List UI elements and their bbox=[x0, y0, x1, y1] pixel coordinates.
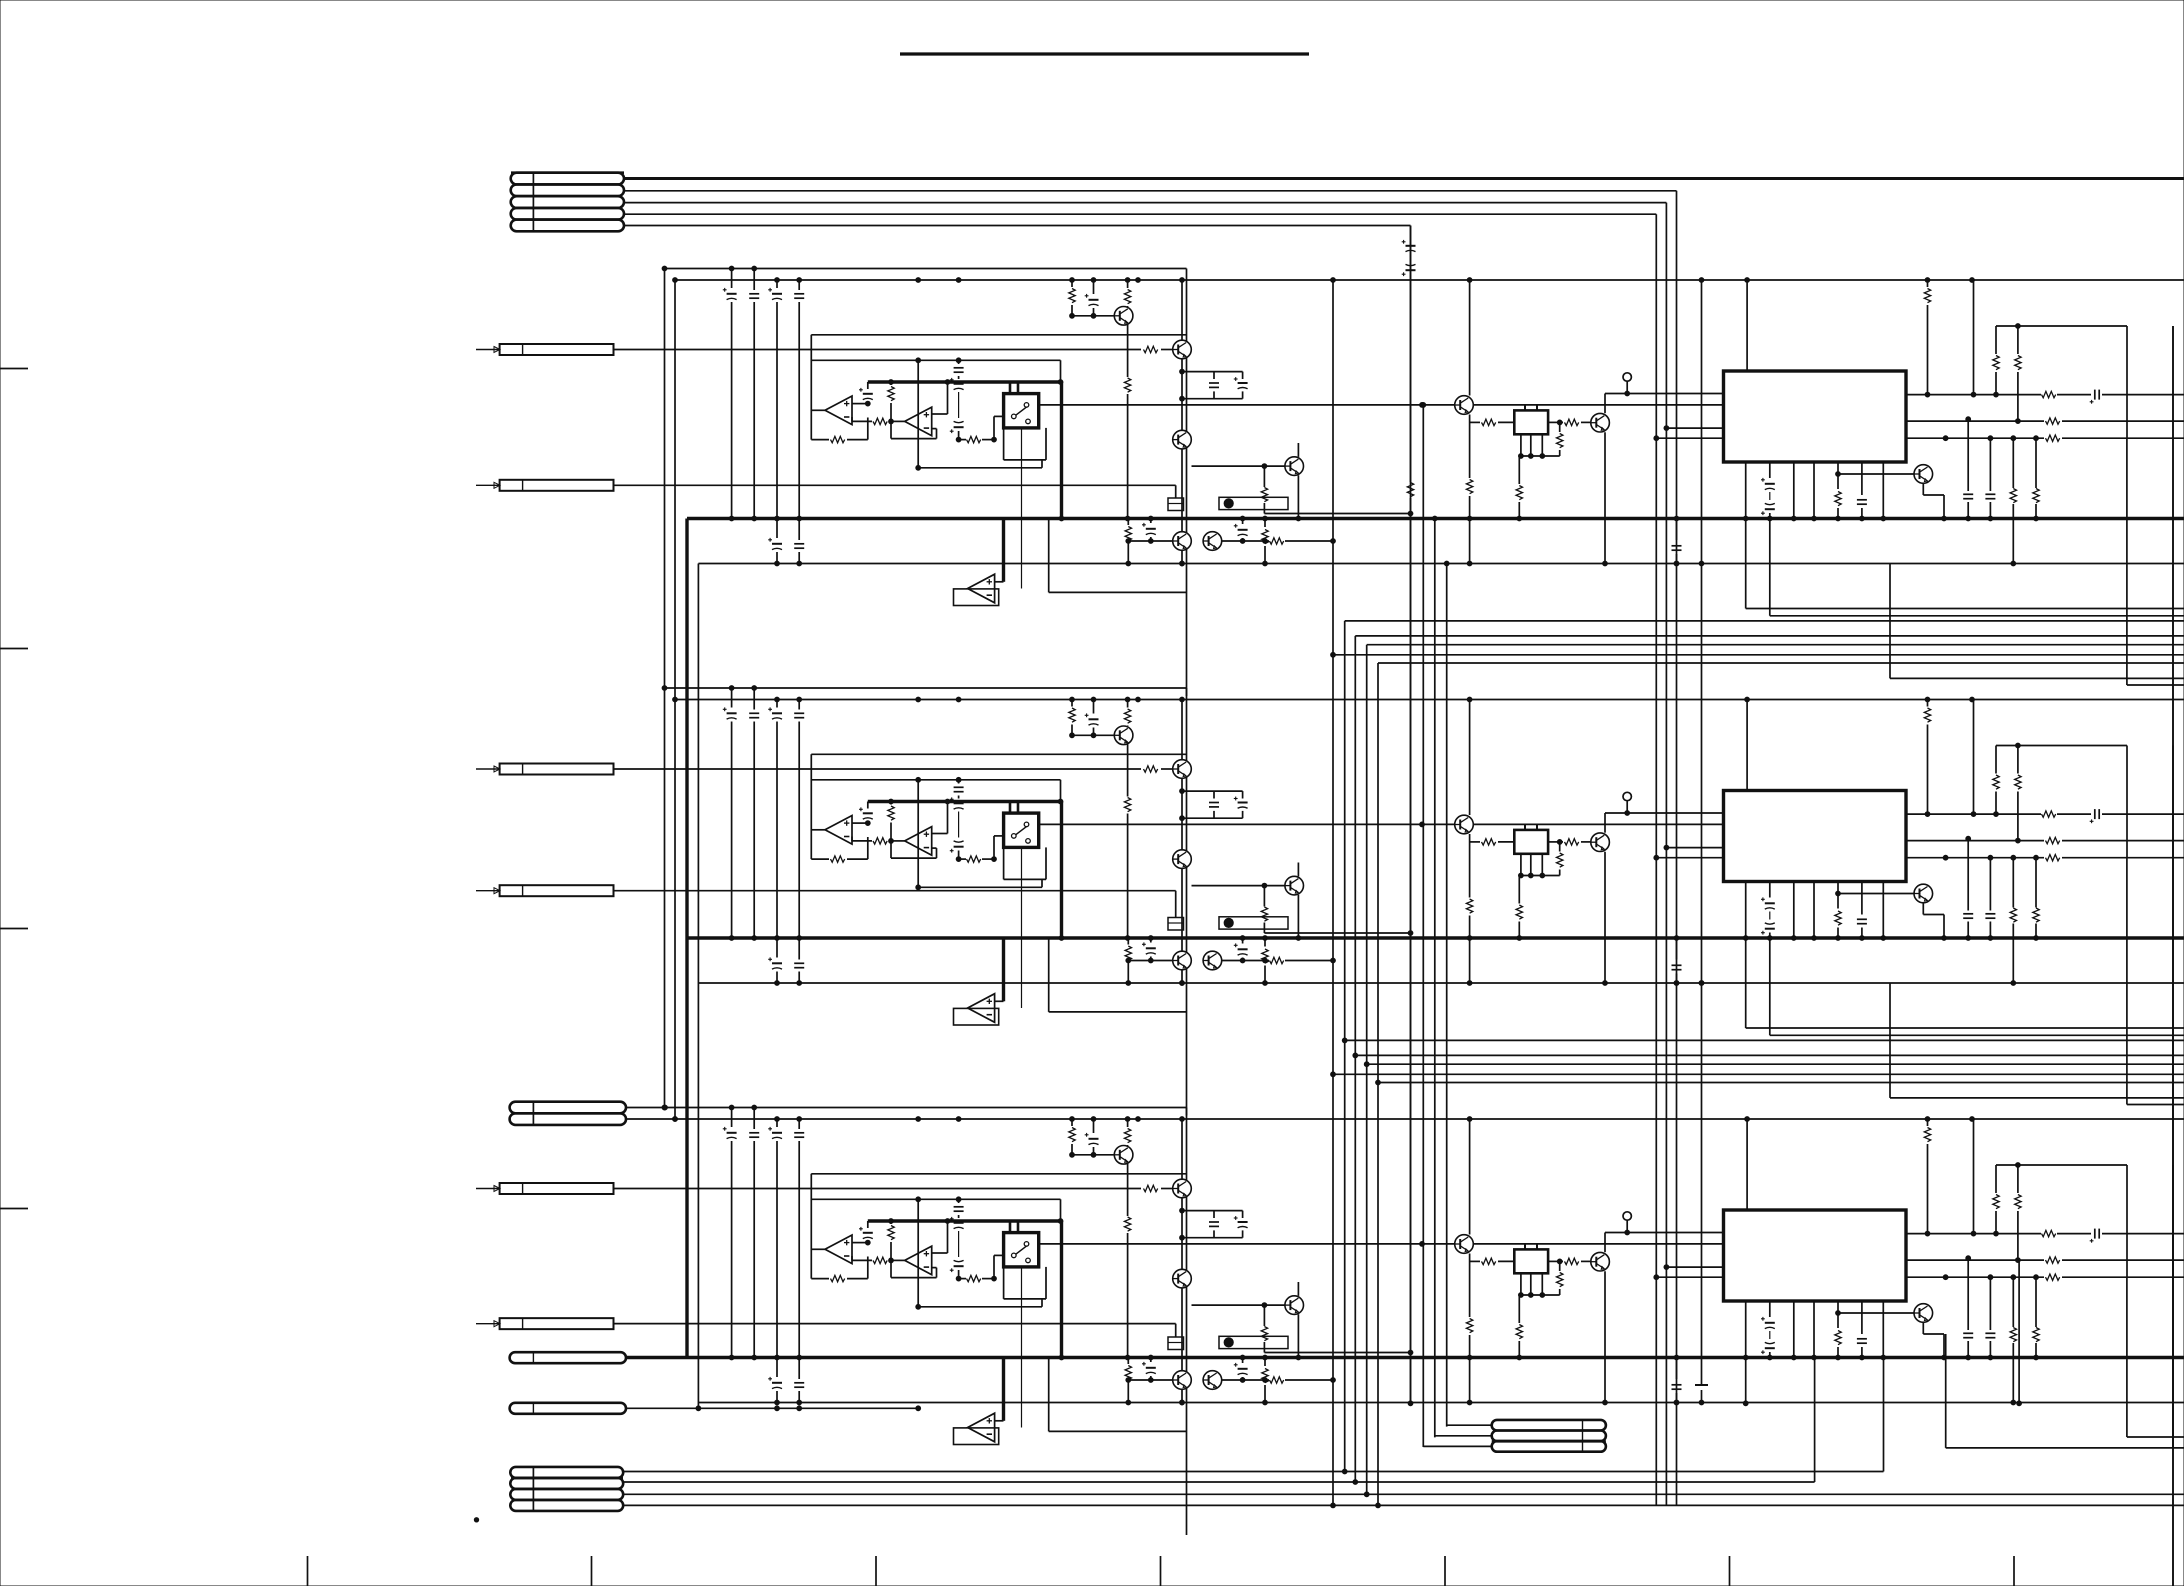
wire: harness wire 1 (thick) bbox=[624, 177, 2184, 180]
wire: control vertical 4 bbox=[1446, 564, 1448, 1427]
wire: secondary riser bbox=[697, 564, 699, 1409]
wire: bus bundle vertical 1 bbox=[1332, 280, 1334, 1505]
connector: top-left harness (5 pills) bbox=[511, 173, 624, 185]
wire: ch3 right exits bbox=[1945, 1334, 1947, 1448]
channel 3 (blue) video block bbox=[476, 1105, 2184, 1586]
capacitor pair on harness wire 5 bbox=[1402, 240, 1416, 252]
wire: input 2 line ch2 bbox=[614, 890, 1176, 892]
wire: CN7 row 3 bbox=[1423, 1445, 1491, 1447]
wire: control vertical 1 bbox=[1410, 226, 1412, 483]
connector: coax input 2 ch3 bbox=[500, 1318, 614, 1329]
wire: ch3 IC pin extension 1 bbox=[1745, 1358, 1747, 1404]
channel 1 (red) video block bbox=[476, 266, 2184, 1448]
connector: coax input 2 ch2 bbox=[500, 885, 614, 896]
wire: bottom harness w4 bbox=[623, 1504, 2184, 1506]
reference dot bbox=[474, 1518, 478, 1522]
wire: long sense line bbox=[1701, 280, 1703, 1385]
wire: input 2 line ch1 bbox=[614, 484, 1176, 486]
wire: input 2 line ch3 bbox=[614, 1323, 1176, 1325]
channel 2 (green) video block bbox=[476, 686, 2184, 1586]
connector: right 3-pill CN7 bbox=[1492, 1420, 1606, 1431]
wire: CN7 row 1 bbox=[1447, 1424, 1492, 1426]
wire: CN7 row 2 bbox=[1435, 1435, 1492, 1437]
wire: harness wire 3 bbox=[624, 202, 1666, 204]
wire: left frame vertical 1 bbox=[664, 269, 666, 1108]
connector: single pill CN6 bbox=[510, 1403, 626, 1414]
connector: dual pill CN4 bbox=[510, 1102, 626, 1114]
wire: inter-stage bus after ch2 bbox=[1745, 938, 1747, 1028]
wire: control vertical 3 bbox=[1434, 519, 1436, 1438]
wire: bottom harness w2 bbox=[623, 1481, 1815, 1483]
wire: inter-stage bus after ch1 bbox=[1745, 519, 1747, 609]
wire: CN6 feed bbox=[626, 1407, 918, 1409]
wire: CN5 feed (thick) bbox=[626, 1356, 687, 1359]
frame tick marks left bbox=[0, 368, 28, 370]
wire: ch1 right exit bbox=[2126, 438, 2128, 685]
connector: single pill CN5 bbox=[510, 1352, 626, 1363]
wire: right frame vertical bbox=[2172, 326, 2174, 1448]
connector: coax input 2 ch1 bbox=[500, 480, 614, 491]
frame tick marks bottom bbox=[307, 1556, 309, 1586]
title underline bbox=[900, 52, 1309, 55]
wire: harness wire 4 bbox=[624, 213, 1656, 215]
wire: bottom harness w3 bbox=[623, 1493, 2184, 1495]
wire: bus bundle vertical 3 bbox=[1354, 636, 1356, 1482]
wire: bus bundle vertical 4 bbox=[1366, 645, 1368, 1495]
wire: harness wire 2 bbox=[624, 190, 1677, 192]
wire: bottom harness w1 bbox=[623, 1471, 1884, 1473]
wire: ch2 right exit bbox=[2126, 858, 2128, 1105]
wire: harness wire 5 bbox=[624, 225, 1411, 227]
wire: bus bundle vertical 5 bbox=[1377, 663, 1379, 1505]
wire: control vertical 2 bbox=[1422, 405, 1424, 1447]
wire: bus bundle vertical 2 bbox=[1344, 621, 1346, 1472]
connector: bottom harness (4 pills) bbox=[510, 1467, 623, 1478]
wire: left frame vertical 2 bbox=[674, 280, 676, 1119]
wire: bus riser (thick) bbox=[685, 519, 688, 1358]
